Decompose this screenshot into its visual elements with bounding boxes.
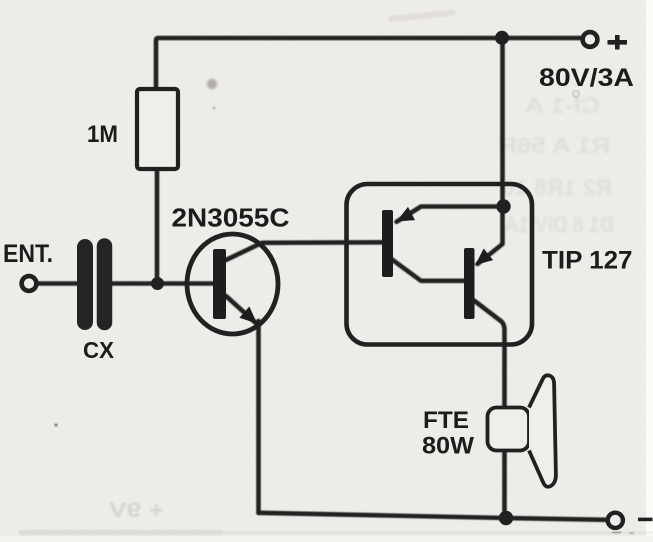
terminal -	[608, 513, 623, 528]
capacitor CX plate left	[77, 247, 93, 322]
faint streak top right	[388, 9, 456, 22]
svg-text:2N3055C: 2N3055C	[172, 203, 290, 233]
wire bottom rail	[259, 513, 607, 520]
wire TIP127 T1 collector to T2 base	[392, 260, 464, 281]
terminal +	[583, 32, 598, 47]
wire resistor to base junction	[155, 169, 160, 284]
node TIP emitter junction	[496, 199, 510, 213]
node base junction	[151, 277, 164, 290]
wire supply drop to TIP127	[478, 38, 503, 264]
faint bleed-through text right side	[498, 93, 614, 237]
svg-text:80W: 80W	[422, 433, 474, 460]
svg-text:TIP 127: TIP 127	[542, 247, 633, 275]
node bottom junction	[499, 511, 513, 525]
smudge dot near resistor	[207, 79, 217, 89]
transistor T2 base bar	[464, 248, 475, 319]
node supply junction top	[495, 31, 509, 45]
svg-text:CX: CX	[83, 337, 115, 363]
input terminal	[22, 276, 37, 291]
resistor 1M	[137, 89, 178, 169]
plus sign	[608, 35, 628, 50]
svg-text:R1 A 56R: R1 A 56R	[498, 133, 610, 158]
transistor Q1 2N3055C circle	[187, 234, 278, 334]
wire input terminal to capacitor	[39, 281, 79, 286]
faint streak bottom	[18, 530, 223, 535]
transistor T2 emitter arrow	[470, 248, 493, 270]
wire emitter 2N3055C down	[226, 296, 257, 324]
transistor Q1 emitter arrow	[239, 307, 262, 330]
svg-text:D1 8 DIV 1A: D1 8 DIV 1A	[504, 212, 614, 237]
wire capacitor to transistor base	[111, 281, 213, 286]
faint bleed-through +9V bottom left	[109, 499, 164, 522]
wire TIP127 T1 emitter to supply dot	[397, 207, 504, 222]
speaker horn	[529, 375, 556, 486]
svg-text:FTE: FTE	[423, 407, 469, 434]
capacitor CX plate right	[97, 246, 113, 323]
minus sign	[638, 518, 653, 522]
svg-text:80V/3A: 80V/3A	[539, 64, 634, 92]
op-amp / IC box TIP127 outline	[347, 184, 533, 345]
svg-text:1M: 1M	[87, 121, 118, 148]
wire top rail	[156, 38, 581, 89]
wire collector 2N3055C to TIP127 base	[226, 242, 382, 260]
speaker magnet FTE	[488, 408, 530, 451]
wire TIP127 T2 collector to speaker and bottom	[474, 301, 505, 519]
svg-text:ENT.: ENT.	[3, 240, 53, 268]
transistor Q1 base bar	[213, 249, 226, 319]
svg-text:CI-1 A: CI-1 A	[525, 93, 600, 118]
transistor T1 base bar	[382, 210, 393, 277]
svg-text:+ 9V: + 9V	[109, 499, 164, 522]
transistor T1 emitter arrow	[393, 207, 415, 228]
